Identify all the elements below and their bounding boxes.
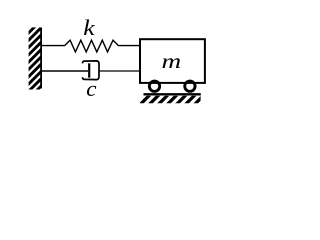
- svg-text:m: m: [162, 50, 182, 73]
- svg-text:k: k: [83, 17, 95, 41]
- svg-text:c: c: [86, 76, 96, 101]
